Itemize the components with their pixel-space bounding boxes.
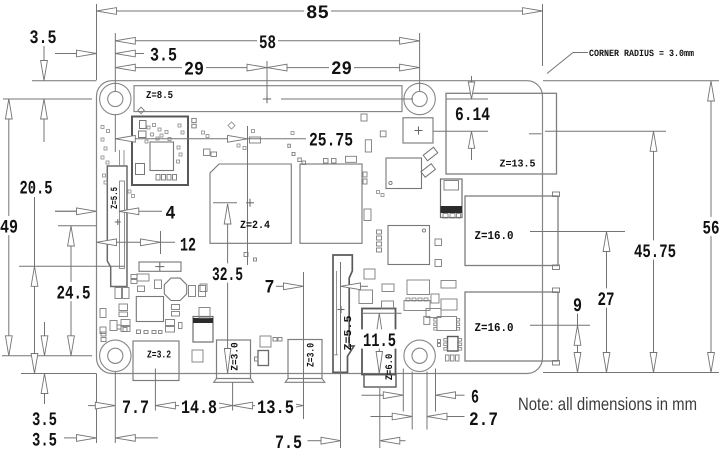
dim 85 top	[97, 10, 543, 12]
svg-text:Z=16.0: Z=16.0	[475, 321, 514, 335]
svg-text:Z=8.5: Z=8.5	[146, 90, 173, 102]
dim 45.75	[653, 131, 655, 372]
USB-C center line	[154, 369, 156, 382]
micro HDMI1 Z=3.0	[288, 340, 322, 379]
svg-text:12: 12	[180, 234, 196, 256]
PCB board outline 85x56mm rounded corners	[97, 81, 543, 374]
svg-text:27: 27	[598, 289, 615, 311]
dim 49 left	[8, 99, 10, 356]
micro HDMI0 Z=3.0	[217, 340, 251, 379]
svg-text:9: 9	[573, 295, 582, 317]
mounting hole bottom-left	[100, 340, 131, 371]
svg-text:85: 85	[306, 2, 329, 24]
svg-text:7.7: 7.7	[122, 397, 149, 419]
dim 3.5 bottom horizontal	[64, 437, 77, 439]
SOIC U bottom-right	[448, 337, 459, 352]
ethernet jack Z=13.5	[446, 93, 557, 174]
dim 27	[606, 232, 608, 373]
antenna	[138, 107, 145, 114]
dim 32.5	[227, 204, 229, 374]
GPIO header J8 Z=8.5	[134, 86, 402, 112]
inductor L	[164, 278, 186, 300]
AV jack Z=6.0	[362, 309, 396, 375]
DSI display connector Z=5.5	[107, 166, 127, 287]
svg-text:58: 58	[259, 32, 276, 54]
wifi module shield	[132, 117, 188, 186]
PoE header	[403, 118, 433, 143]
SDRAM LPDDR4	[300, 164, 362, 243]
dim 4	[55, 210, 77, 212]
svg-text:6: 6	[471, 386, 479, 408]
dim 6.14	[471, 76, 473, 99]
capacitor with stripe	[193, 317, 213, 343]
ethernet PoE reference lines	[446, 98, 488, 100]
dim 20.5	[34, 197, 36, 374]
svg-text:25.75: 25.75	[309, 129, 353, 151]
extension lines bottom	[96, 374, 98, 444]
svg-text:4: 4	[166, 202, 176, 224]
svg-text:2.7: 2.7	[469, 409, 498, 431]
dim 7	[276, 285, 284, 287]
svg-text:56: 56	[703, 217, 720, 239]
extension lines right	[543, 80, 719, 82]
CSI camera connector Z=5.5	[333, 255, 354, 372]
dim 3.5 top horizontal	[55, 53, 77, 55]
dim 9	[577, 312, 579, 373]
extension lines left	[3, 98, 92, 100]
dim 2.7	[371, 416, 393, 418]
svg-text:20.5: 20.5	[20, 177, 53, 199]
svg-text:29: 29	[184, 59, 204, 81]
dim 3.5 bottom-left vertical	[44, 322, 46, 336]
small passives	[131, 275, 137, 279]
svg-text:3.5: 3.5	[32, 409, 57, 431]
transistor Q SOT-23	[258, 351, 269, 366]
mounting hole top-left	[100, 83, 131, 114]
svg-text:7: 7	[265, 276, 275, 298]
dim 25.75	[115, 138, 306, 140]
svg-text:49: 49	[0, 216, 18, 238]
ethernet PHY chip	[388, 226, 430, 265]
svg-text:11.5: 11.5	[363, 330, 396, 352]
svg-text:6.14: 6.14	[455, 104, 490, 126]
dim 12	[97, 241, 176, 243]
dim 56 right	[710, 81, 712, 373]
USB2 connector Z=16.0	[465, 292, 558, 361]
svg-text:3.5: 3.5	[32, 429, 57, 451]
svg-text:Note: all dimensions in mm: Note: all dimensions in mm	[518, 394, 697, 414]
dim chain 7.7 14.8 13.5	[88, 405, 95, 407]
svg-text:7.5: 7.5	[275, 432, 302, 454]
SoC center lines	[247, 126, 249, 265]
svg-text:29: 29	[331, 58, 352, 80]
svg-text:CORNER RADIUS = 3.0mm: CORNER RADIUS = 3.0mm	[589, 48, 694, 59]
svg-text:Z=3.0: Z=3.0	[230, 342, 241, 371]
svg-text:Z=3.2: Z=3.2	[147, 350, 171, 362]
dim 11.5	[378, 313, 380, 373]
svg-text:Z=5.5: Z=5.5	[343, 316, 355, 351]
USB power chip with stripe	[441, 179, 463, 218]
GPIO center line	[281, 98, 413, 100]
svg-text:24.5: 24.5	[57, 282, 91, 304]
corner radius callout	[573, 52, 588, 54]
svg-text:3.5: 3.5	[30, 27, 57, 49]
SoC BCM2711 Z=2.4	[210, 164, 291, 243]
USB3 connector Z=16.0	[465, 196, 558, 266]
electrolytic capacitor C97	[139, 262, 181, 271]
svg-text:45.75: 45.75	[634, 241, 676, 263]
dim 24.5	[70, 226, 72, 356]
svg-text:Z=6.0: Z=6.0	[385, 354, 396, 381]
gpio header label plus	[263, 98, 271, 100]
PMIC chip	[136, 297, 163, 322]
diode D1 rotated	[423, 147, 438, 161]
USB controller chip VL805	[386, 158, 422, 189]
dim 6	[362, 394, 384, 396]
svg-text:Z=13.5: Z=13.5	[500, 158, 536, 170]
svg-text:13.5: 13.5	[257, 397, 294, 419]
USB-C power connector Z=3.2	[133, 341, 179, 381]
svg-text:32.5: 32.5	[212, 264, 243, 286]
svg-text:Z=2.4: Z=2.4	[240, 220, 270, 232]
dim 7.5	[308, 440, 322, 442]
dim 3.5 top-left vertical	[43, 46, 45, 60]
extension lines top	[96, 4, 98, 80]
dim 58	[115, 40, 419, 42]
mounting hole bottom-right	[404, 340, 435, 371]
dimension labels	[304, 1, 331, 20]
svg-text:14.8: 14.8	[181, 397, 217, 419]
svg-text:Z=5.5: Z=5.5	[109, 187, 120, 209]
svg-text:Z=3.0: Z=3.0	[306, 343, 317, 367]
svg-text:3.5: 3.5	[150, 44, 177, 66]
mounting hole top-right	[404, 83, 435, 114]
svg-text:Z=16.0: Z=16.0	[475, 229, 514, 243]
diode D2 rotated	[421, 164, 436, 178]
dim 29 + 29	[115, 67, 419, 69]
